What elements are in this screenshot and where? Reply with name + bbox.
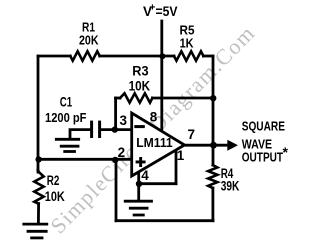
wire V+ supply drop to pin 8 bbox=[160, 21, 163, 131]
wire top rail right segment bbox=[203, 55, 213, 58]
wire pin 3 input bbox=[101, 128, 132, 131]
wire top rail left segment bbox=[38, 55, 70, 58]
node junction dot R3/output column bbox=[210, 95, 216, 101]
wire top rail middle segment bbox=[100, 55, 174, 58]
svg-text:4: 4 bbox=[141, 168, 149, 183]
svg-text:39K: 39K bbox=[221, 178, 240, 193]
wire R3 left stub bbox=[116, 97, 121, 100]
wire R3 right segment to output column bbox=[152, 97, 213, 100]
svg-text:1200 pF: 1200 pF bbox=[45, 110, 87, 125]
wire pin 1 down bbox=[175, 150, 178, 184]
svg-text:1: 1 bbox=[177, 148, 185, 163]
svg-text:C1: C1 bbox=[60, 95, 73, 110]
svg-text:OUTPUT: OUTPUT bbox=[242, 149, 283, 164]
node junction dot output pin 7 bbox=[210, 142, 217, 149]
node junction dot feedback pin 2 bbox=[112, 157, 118, 163]
wire left rail from top corner down bbox=[37, 56, 40, 172]
svg-text:=5V: =5V bbox=[156, 4, 178, 19]
output arrowhead bbox=[227, 140, 238, 151]
svg-text:10K: 10K bbox=[45, 189, 65, 204]
svg-text:R3: R3 bbox=[132, 64, 149, 79]
op-amp minus input bar bbox=[134, 125, 145, 128]
wire output column bbox=[212, 56, 215, 165]
resistor R2 bbox=[34, 172, 43, 204]
svg-text:3: 3 bbox=[120, 113, 128, 128]
wire feedback drop from pin2 node bbox=[115, 159, 118, 220]
wire R4 bottom to bottom rail bbox=[211, 188, 214, 221]
wire pin 7 output bbox=[185, 144, 229, 147]
op-amp plus input sign bbox=[136, 161, 146, 164]
svg-text:7: 7 bbox=[188, 127, 196, 142]
node junction dot V+ top rail bbox=[159, 53, 165, 59]
ground below C1 bbox=[55, 139, 80, 151]
svg-text:2: 2 bbox=[118, 145, 126, 160]
svg-text:20K: 20K bbox=[79, 33, 99, 48]
wire R2 bottom to ground bbox=[37, 204, 40, 223]
node junction dot pin 3 bbox=[112, 126, 118, 132]
svg-text:*: * bbox=[283, 144, 289, 160]
svg-text:8: 8 bbox=[150, 110, 158, 125]
resistor R4 bbox=[208, 165, 217, 188]
wire C1 left plate to ground bbox=[70, 130, 91, 138]
svg-text:1K: 1K bbox=[180, 35, 195, 50]
capacitor C1 bbox=[92, 121, 100, 138]
resistor R5 bbox=[174, 51, 203, 60]
wire bottom rail bbox=[116, 219, 213, 222]
op-amp U1 LM111 triangle bbox=[132, 113, 185, 176]
wire pin 2 input bbox=[38, 158, 132, 161]
svg-text:R2: R2 bbox=[47, 173, 60, 188]
ground below pin 4 bbox=[124, 201, 153, 215]
resistor R3 bbox=[120, 93, 152, 102]
node junction dot pin 4 bbox=[136, 181, 142, 187]
resistor R1 bbox=[70, 51, 99, 60]
ground below R2 bbox=[22, 224, 48, 238]
svg-text:SQUARE: SQUARE bbox=[242, 118, 286, 133]
node junction dot left rail pin 2 bbox=[35, 156, 41, 162]
svg-text:10K: 10K bbox=[129, 79, 151, 94]
wire pin 4 down bbox=[137, 172, 140, 200]
svg-text:LM111: LM111 bbox=[136, 136, 173, 150]
wire R3 left vertical bbox=[114, 98, 117, 130]
wire pin1 to pin4 horizontal bbox=[139, 182, 176, 185]
